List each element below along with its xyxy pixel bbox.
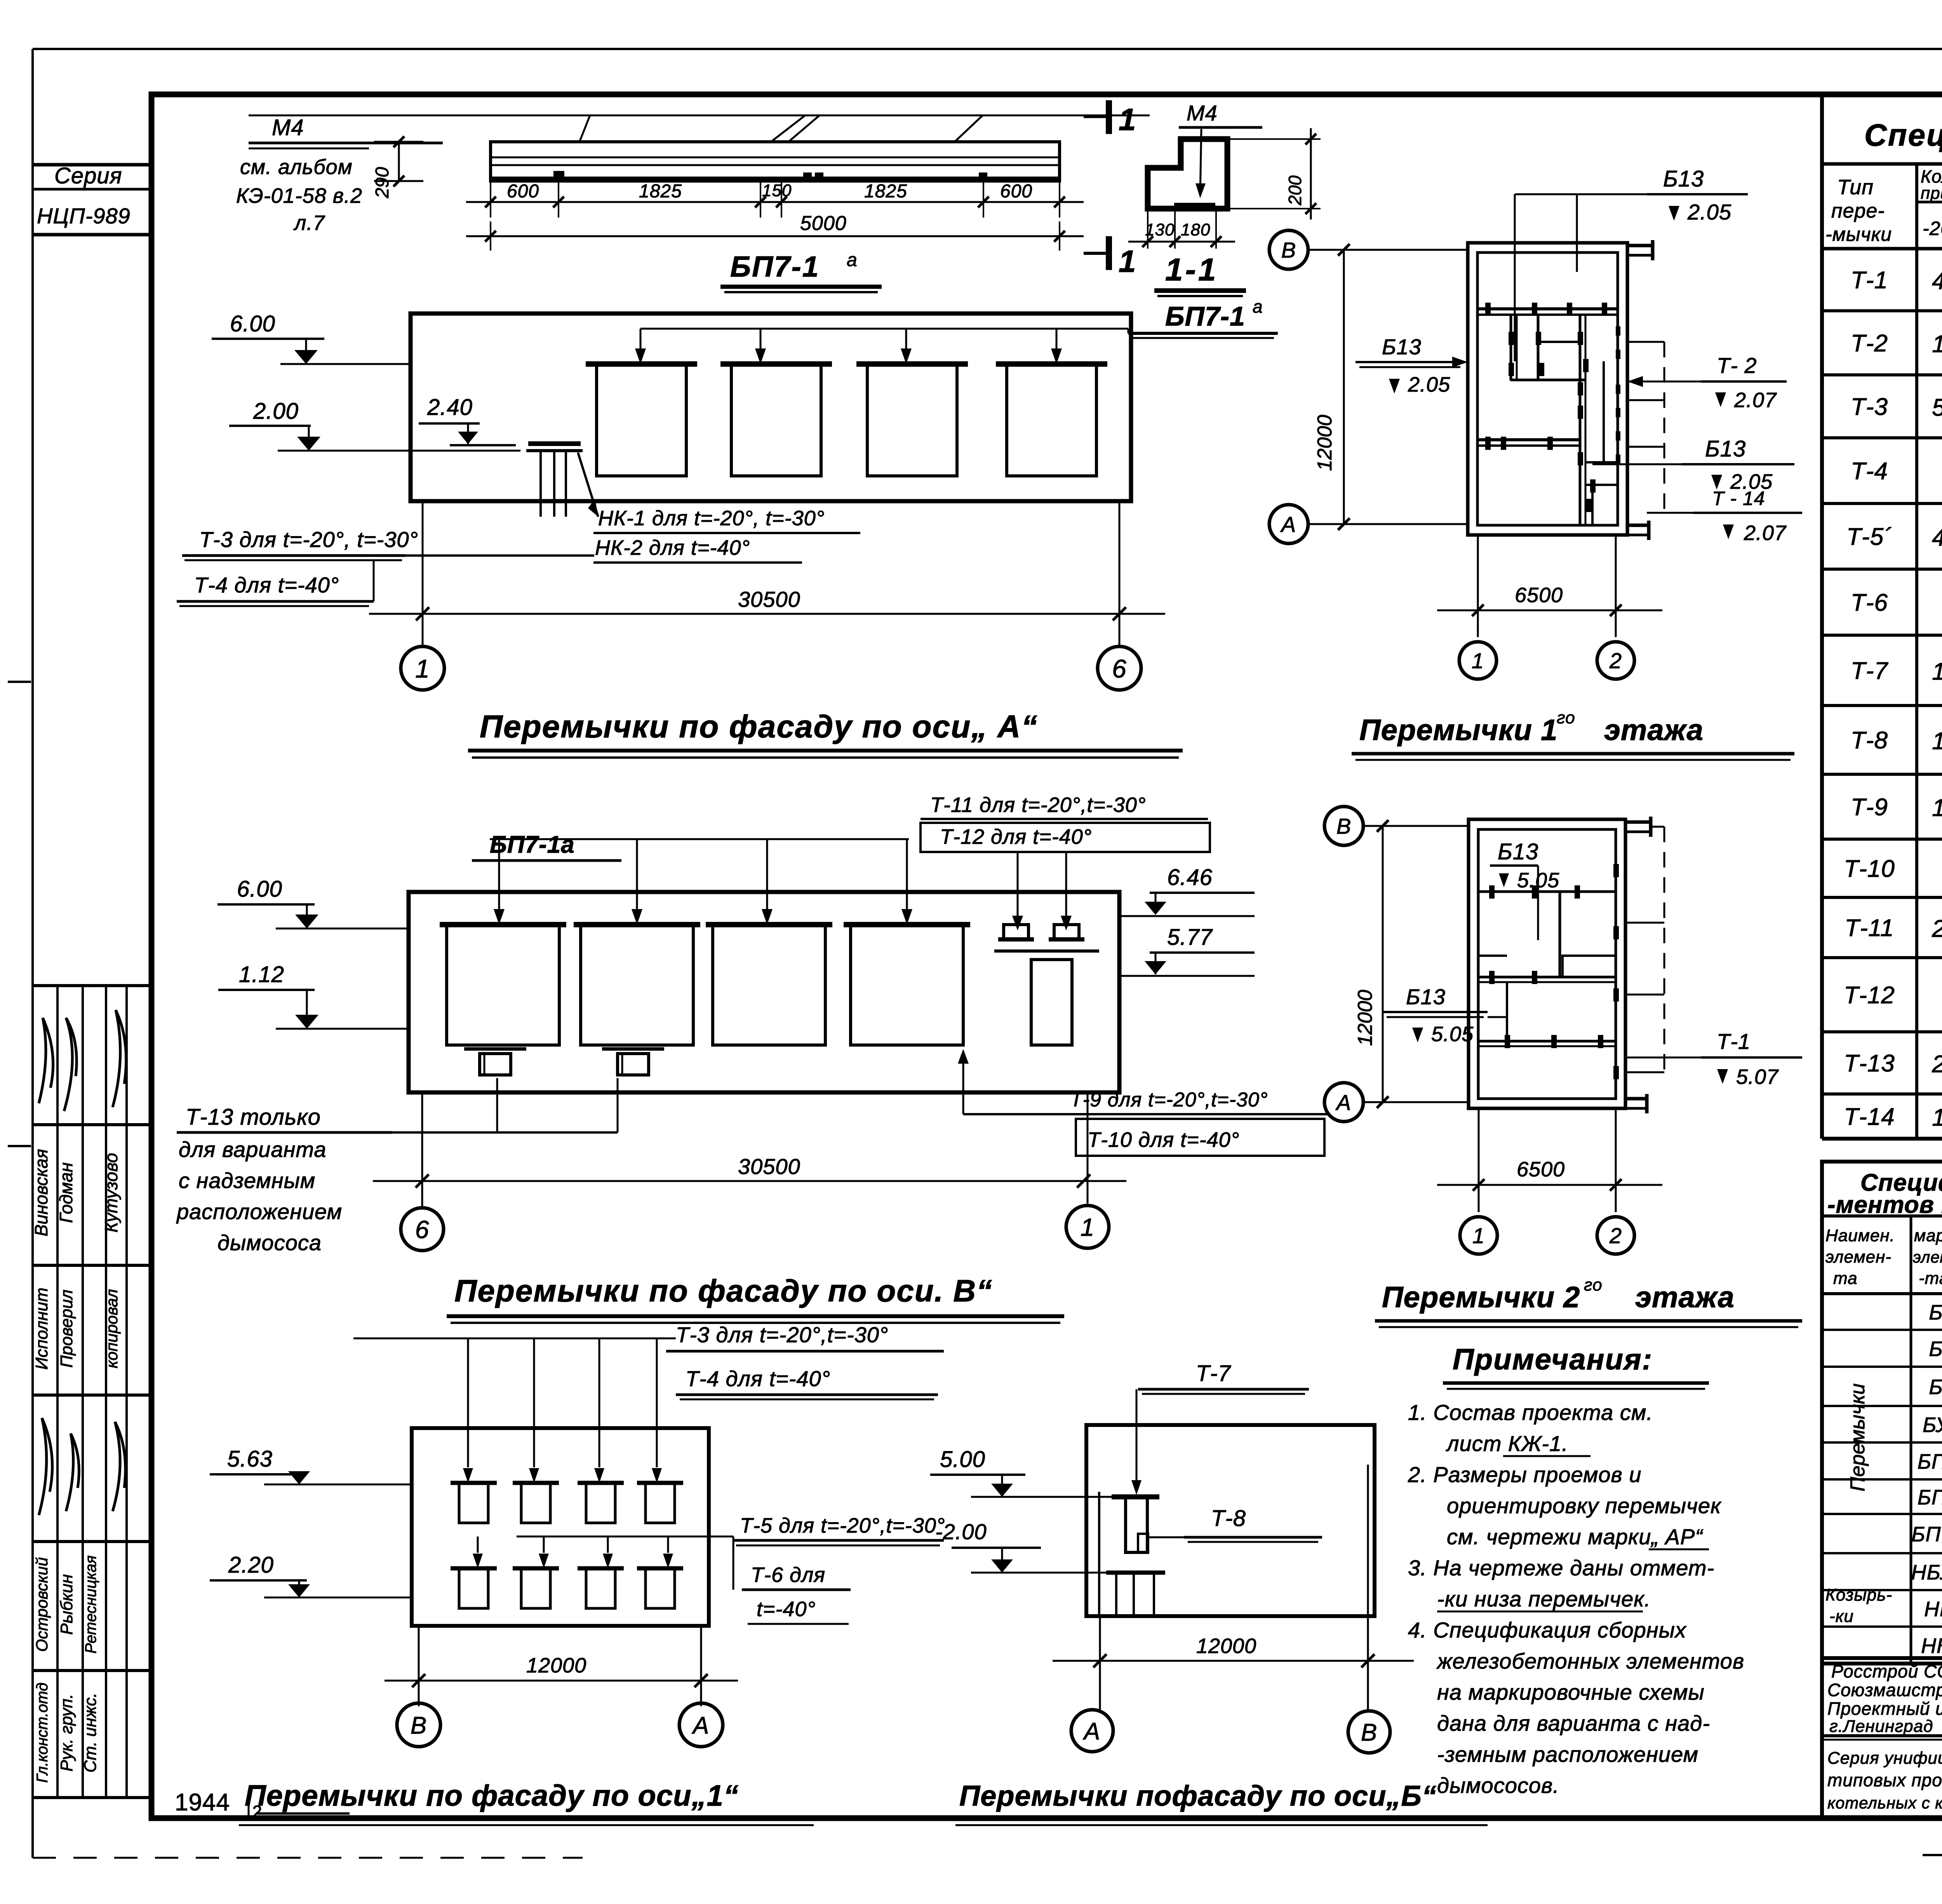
svg-text:А: А (691, 1712, 709, 1739)
svg-text:Кутузово: Кутузово (101, 1153, 121, 1233)
svg-text:5.77: 5.77 (1167, 925, 1213, 950)
right leader lines plan2 (1651, 826, 1664, 828)
staff signatures top (39, 1018, 53, 1103)
svg-text:1. Состав проекта см.: 1. Состав проекта см. (1408, 1400, 1653, 1425)
svg-text:1: 1 (1472, 648, 1484, 673)
svg-text:БП7-1а: БП7-1а (1911, 1523, 1942, 1546)
svg-text:НЦП-989: НЦП-989 (37, 204, 131, 228)
svg-text:5000: 5000 (800, 212, 847, 235)
svg-text:л.7: л.7 (293, 211, 325, 235)
leader T-7 (1136, 1389, 1138, 1492)
svg-text:2. Размеры проемов и: 2. Размеры проемов и (1408, 1462, 1641, 1487)
axis circle A plan1 (1269, 505, 1308, 544)
plan1 right wall openings (1616, 326, 1620, 336)
svg-text:Козырь-: Козырь- (1825, 1585, 1892, 1604)
svg-text:Т-4 для t=-40°: Т-4 для t=-40° (686, 1366, 830, 1391)
svg-text:-ки: -ки (1829, 1607, 1854, 1626)
table1 row lines (1822, 309, 1942, 312)
svg-text:Т-7: Т-7 (1196, 1361, 1232, 1386)
svg-text:БУ19: БУ19 (1923, 1413, 1942, 1437)
svg-text:12000: 12000 (1354, 990, 1376, 1046)
svg-text:Т-4: Т-4 (1851, 458, 1888, 485)
svg-text:Т-8: Т-8 (1211, 1506, 1246, 1531)
svg-text:Перемычки: Перемычки (1846, 1383, 1869, 1491)
facade axis Б elevation (1086, 1425, 1375, 1616)
dim 12000 facade Б (1099, 1616, 1101, 1711)
svg-text:4. Спецификация сборных: 4. Спецификация сборных (1408, 1618, 1687, 1642)
plan2 bottom right flange (1625, 1097, 1647, 1101)
svg-text:Т-9: Т-9 (1851, 794, 1888, 821)
axis circles 1 2 plan2 (1460, 1217, 1497, 1254)
svg-text:2.07: 2.07 (1744, 521, 1787, 545)
leaders to lower windows (517, 1536, 733, 1538)
svg-text:Серия: Серия (54, 163, 122, 188)
svg-text:-2.00: -2.00 (935, 1519, 987, 1544)
svg-text:В: В (1336, 814, 1351, 838)
table2 header (1822, 1292, 1942, 1295)
svg-text:Т-8: Т-8 (1851, 727, 1888, 754)
axis circle A plan2 (1324, 1083, 1363, 1122)
plan2 right branch lines (1625, 922, 1664, 924)
svg-text:элемен-: элемен- (1825, 1247, 1892, 1266)
dim 130 180 (1147, 209, 1148, 249)
svg-text:1-1: 1-1 (1165, 252, 1218, 287)
staff signatures bottom (39, 1418, 52, 1515)
svg-text:КЭ-01-58 в.2: КЭ-01-58 в.2 (236, 184, 362, 207)
facade axis 1 elevation (412, 1428, 709, 1626)
plan1 right dashed leader (1664, 342, 1665, 509)
svg-text:-ки низа перемычек.: -ки низа перемычек. (1437, 1587, 1651, 1611)
svg-text:1: 1 (1932, 331, 1942, 358)
embedded plates (553, 171, 564, 177)
svg-text:130: 130 (1145, 220, 1175, 239)
svg-text:Перемычки по фасаду по оси„1: Перемычки по фасаду по оси„1“ (245, 1779, 739, 1812)
plan2 left label leader link (1488, 1016, 1507, 1018)
canopy NK (528, 441, 581, 446)
svg-text:дымососов.: дымососов. (1437, 1773, 1559, 1798)
svg-text:1944: 1944 (175, 1789, 230, 1816)
svg-text:Б13: Б13 (1498, 839, 1538, 864)
svg-text:-мычки: -мычки (1825, 223, 1892, 245)
svg-text:Гл.конст.отд: Гл.конст.отд (34, 1683, 51, 1783)
svg-text:150: 150 (762, 181, 792, 200)
svg-text:Б13: Б13 (1929, 1301, 1942, 1324)
svg-text:12000: 12000 (1196, 1634, 1256, 1658)
svg-text:НБУ-16: НБУ-16 (1911, 1561, 1942, 1584)
axis circles facade Б (1071, 1710, 1113, 1752)
axis circle B plan2 (1324, 807, 1363, 845)
svg-text:Т-14: Т-14 (1844, 1104, 1895, 1131)
svg-text:Перемычки пофасаду по оси„Б“: Перемычки пофасаду по оси„Б“ (959, 1780, 1437, 1812)
staff table (33, 984, 151, 987)
facade B windows (440, 922, 566, 927)
svg-text:Союзмашстройпроект: Союзмашстройпроект (1827, 1680, 1942, 1700)
svg-text:2.00: 2.00 (253, 399, 299, 424)
svg-text:с надземным: с надземным (179, 1168, 315, 1193)
svg-text:Т-3: Т-3 (1851, 394, 1888, 420)
svg-text:этажа: этажа (1604, 714, 1704, 747)
svg-text:5.63: 5.63 (227, 1446, 273, 1472)
beam dim line 600 1825 150 1825 600 (466, 201, 1084, 203)
svg-text:Перемычки 1: Перемычки 1 (1359, 714, 1557, 747)
svg-text:Спецификация перемычек на т: Спецификация перемычек на типы (1864, 118, 1942, 152)
beam BP7-1a body (491, 142, 1060, 181)
svg-text:а: а (1253, 296, 1263, 317)
svg-text:Т-3 для t=-20°,t=-30°: Т-3 для t=-20°,t=-30° (676, 1322, 888, 1347)
pedestal bottom (1106, 1571, 1165, 1575)
svg-text:А: А (1082, 1718, 1100, 1745)
svg-text:Перемычки 2: Перемычки 2 (1382, 1281, 1580, 1314)
facade A windows (586, 361, 697, 367)
facade Б window (1112, 1495, 1159, 1500)
leader BP7-1a over facade A (640, 328, 1128, 330)
svg-text:В: В (411, 1712, 427, 1739)
svg-text:Годман: Годман (56, 1162, 76, 1223)
svg-text:Б13: Б13 (1382, 334, 1422, 359)
svg-text:1: 1 (1119, 102, 1136, 137)
svg-text:Т-6 для: Т-6 для (751, 1563, 825, 1587)
axis circles facade 1 (397, 1703, 440, 1747)
svg-text:Т-5 для t=-20°,t=-30°: Т-5 для t=-20°,t=-30° (740, 1514, 945, 1537)
dim 6500 plan1 (1477, 535, 1479, 637)
notes underlines (1503, 1455, 1590, 1457)
svg-text:1: 1 (1932, 795, 1942, 822)
svg-text:6: 6 (415, 1216, 430, 1244)
svg-text:НК-1: НК-1 (1924, 1597, 1942, 1621)
svg-text:Б13: Б13 (1406, 984, 1446, 1009)
svg-text:-земным расположением: -земным расположением (1437, 1742, 1698, 1766)
series box (33, 163, 151, 167)
svg-text:12000: 12000 (526, 1654, 586, 1677)
plan2 top right flange (1625, 820, 1651, 824)
facade axis B elevation (409, 892, 1119, 1092)
svg-text:Б15: Б15 (1929, 1338, 1942, 1361)
svg-text:Росстрой СССР: Росстрой СССР (1831, 1661, 1942, 1681)
plan2 internal (1478, 890, 1616, 893)
svg-text:ориентировку перемычек: ориентировку перемычек (1447, 1493, 1722, 1518)
svg-text:марка: марка (1914, 1226, 1942, 1245)
leader line M4 (249, 115, 1150, 117)
svg-text:2: 2 (1932, 916, 1942, 942)
svg-text:4: 4 (1932, 524, 1942, 551)
svg-text:БП3-1: БП3-1 (1918, 1486, 1942, 1509)
svg-text:30500: 30500 (738, 587, 800, 611)
svg-text:на маркировочные схемы: на маркировочные схемы (1437, 1680, 1705, 1704)
svg-text:типовых проектов: типовых проектов (1827, 1770, 1942, 1790)
svg-text:та: та (1833, 1269, 1858, 1288)
svg-text:1: 1 (1932, 1104, 1942, 1131)
plan1 internal walls (1477, 307, 1618, 310)
svg-text:дымососа: дымососа (218, 1230, 322, 1255)
svg-text:6500: 6500 (1515, 584, 1563, 607)
svg-text:элемен.: элемен. (1913, 1248, 1942, 1266)
svg-text:1: 1 (1932, 728, 1942, 755)
svg-text:Т-1: Т-1 (1717, 1029, 1751, 1054)
facade Б axis line inside left (1098, 1492, 1100, 1616)
svg-text:А: А (1280, 512, 1296, 537)
svg-text:НК- 2: НК- 2 (1921, 1634, 1942, 1658)
svg-text:Т-12 для t=-40°: Т-12 для t=-40° (940, 825, 1092, 848)
svg-text:5: 5 (1932, 394, 1942, 421)
svg-text:2.20: 2.20 (228, 1552, 274, 1578)
svg-text:этажа: этажа (1635, 1281, 1735, 1314)
svg-text:Т-11: Т-11 (1845, 915, 1894, 942)
svg-text:Островский: Островский (33, 1557, 51, 1651)
svg-text:БП7-1: БП7-1 (1165, 301, 1245, 331)
svg-text:6.00: 6.00 (230, 311, 275, 336)
svg-text:1825: 1825 (639, 181, 682, 202)
svg-text:Перемычки по фасаду по оси.: Перемычки по фасаду по оси. В“ (454, 1273, 993, 1308)
svg-text:г.Ленинград: г.Ленинград (1829, 1717, 1933, 1736)
facade axis A elevation (411, 314, 1131, 501)
svg-text:290: 290 (372, 167, 393, 199)
svg-text:2: 2 (1609, 1223, 1622, 1248)
svg-text:Т-7: Т-7 (1851, 658, 1889, 685)
svg-text:расположением: расположением (176, 1199, 342, 1224)
svg-text:лист КЖ-1.: лист КЖ-1. (1446, 1431, 1568, 1456)
svg-text:30500: 30500 (738, 1154, 800, 1179)
svg-text:Т-4 для t=-40°: Т-4 для t=-40° (194, 573, 339, 597)
svg-text:200: 200 (1285, 175, 1305, 206)
svg-text:6: 6 (1112, 654, 1127, 683)
svg-text:М4: М4 (272, 115, 304, 140)
svg-text:Б13: Б13 (1663, 166, 1704, 192)
svg-text:6.46: 6.46 (1167, 865, 1213, 890)
dim 12000 plan1 (1343, 250, 1345, 524)
plan2 lintel ticks (1489, 885, 1495, 899)
registration ticks (8, 681, 31, 683)
svg-text:1: 1 (1081, 1213, 1095, 1241)
svg-text:Проектный институт N1: Проектный институт N1 (1827, 1698, 1942, 1719)
plan1 right branch lines (1627, 341, 1664, 343)
svg-text:Т- 2: Т- 2 (1717, 353, 1757, 378)
svg-text:Т-12: Т-12 (1844, 982, 1895, 1009)
plan floor1 outer walls (1468, 243, 1627, 535)
svg-text:Т - 14: Т - 14 (1712, 488, 1765, 509)
svg-text:Проверил: Проверил (57, 1289, 76, 1367)
axis circle B plan1 (1269, 230, 1308, 269)
svg-text:Наимен.: Наимен. (1825, 1226, 1895, 1245)
svg-text:2.05: 2.05 (1408, 373, 1450, 396)
facade 1 windows upper (451, 1481, 497, 1485)
svg-text:НК-1 для t=-20°, t=-30°: НК-1 для t=-20°, t=-30° (598, 507, 825, 530)
svg-text:М4: М4 (1187, 101, 1218, 125)
svg-text:t=-40°: t=-40° (757, 1597, 816, 1621)
svg-text:3. На чертеже даны отмет-: 3. На чертеже даны отмет- (1408, 1556, 1714, 1580)
svg-text:-ментов на маркировочные схе: -ментов на маркировочные схемы для всех … (1827, 1192, 1942, 1218)
svg-text:А: А (1335, 1090, 1351, 1115)
svg-text:го: го (1557, 708, 1575, 727)
svg-text:Перемычки по фасаду по оси„: Перемычки по фасаду по оси„ А“ (480, 709, 1038, 744)
svg-text:при температ: при температ (1921, 184, 1942, 203)
svg-text:1: 1 (1472, 1223, 1485, 1248)
svg-text:2.05: 2.05 (1687, 200, 1731, 224)
dim 12000 plan2 (1382, 826, 1384, 1102)
svg-text:6.00: 6.00 (237, 876, 282, 902)
svg-text:1825: 1825 (864, 181, 907, 202)
dim 12000 facade 1 (418, 1626, 420, 1706)
svg-text:Т-10: Т-10 (1844, 855, 1895, 882)
svg-text:а: а (847, 250, 858, 270)
svg-text:котельных с котлами ДКВР: котельных с котлами ДКВР (1827, 1794, 1942, 1812)
svg-text:Т-9 для t=-20°,t=-30°: Т-9 для t=-20°,t=-30° (1070, 1089, 1268, 1111)
svg-text:Виновская: Виновская (31, 1149, 51, 1236)
svg-text:пере-: пере- (1831, 200, 1885, 222)
svg-text:копировал: копировал (103, 1289, 121, 1368)
svg-text:12000: 12000 (1314, 415, 1336, 471)
svg-text:Т-10 для t=-40°: Т-10 для t=-40° (1088, 1128, 1239, 1151)
axis circles facade B (401, 1208, 444, 1251)
svg-text:Б13: Б13 (1705, 436, 1746, 462)
dim 30500 facade B (421, 1092, 423, 1207)
svg-text:5.07: 5.07 (1736, 1065, 1779, 1089)
svg-text:-та: -та (1919, 1269, 1942, 1288)
leaders from T-3 to upper windows (353, 1338, 676, 1340)
svg-text:Т-13 только: Т-13 только (186, 1104, 321, 1130)
facade B small right windows (998, 937, 1034, 942)
svg-text:2: 2 (1609, 648, 1622, 673)
svg-text:5.00: 5.00 (940, 1447, 985, 1472)
svg-text:Примечания:: Примечания: (1453, 1343, 1653, 1376)
svg-text:Т-6: Т-6 (1851, 589, 1888, 616)
plan1 top right flange (1627, 244, 1653, 247)
svg-text:600: 600 (1000, 181, 1032, 202)
svg-text:-20°: -20° (1923, 218, 1942, 239)
svg-text:В: В (1281, 238, 1296, 262)
svg-text:го: го (1584, 1275, 1603, 1294)
svg-text:Тип: Тип (1837, 176, 1874, 199)
table1 header grid (1822, 162, 1942, 166)
title block (1822, 1656, 1942, 1660)
svg-text:Т-2: Т-2 (1851, 330, 1888, 357)
svg-text:дана для варианта с над-: дана для варианта с над- (1437, 1711, 1710, 1735)
section mark 1 top (1106, 100, 1112, 134)
svg-text:Ретесницкая: Ретесницкая (82, 1556, 99, 1654)
svg-text:Рыбкин: Рыбкин (57, 1574, 76, 1635)
svg-text:4: 4 (1932, 268, 1942, 294)
dim 290 (398, 142, 400, 181)
svg-text:600: 600 (507, 181, 539, 202)
plan1 bottom right flange (1627, 524, 1649, 527)
svg-text:180: 180 (1181, 220, 1210, 239)
svg-text:Б19: Б19 (1929, 1376, 1942, 1399)
svg-text:Рук. груп.: Рук. груп. (57, 1694, 76, 1772)
beam dim 5000 (466, 235, 1084, 237)
svg-text:2: 2 (252, 1802, 262, 1821)
svg-text:Ст. инжс.: Ст. инжс. (81, 1693, 100, 1773)
svg-text:1.12: 1.12 (239, 962, 284, 987)
svg-text:Т-11 для t=-20°,t=-30°: Т-11 для t=-20°,t=-30° (930, 793, 1146, 817)
pedestals under windows 1-2 (464, 1047, 526, 1051)
svg-text:Т-1: Т-1 (1851, 267, 1888, 294)
svg-text:1: 1 (415, 654, 430, 683)
dim 6500 plan2 (1478, 1108, 1480, 1212)
svg-text:1: 1 (1119, 244, 1136, 279)
svg-text:2.40: 2.40 (427, 395, 473, 420)
svg-text:6500: 6500 (1517, 1158, 1565, 1181)
svg-text:для варианта: для варианта (179, 1137, 327, 1162)
dim 30500 facade A (422, 501, 424, 637)
spec table 1 frame (1820, 93, 1824, 1139)
section profile (1148, 139, 1227, 209)
svg-text:2: 2 (1932, 1051, 1942, 1078)
svg-text:Т-3 для t=-20°, t=-30°: Т-3 для t=-20°, t=-30° (199, 527, 418, 552)
svg-text:железобетонных элементов: железобетонных элементов (1436, 1649, 1744, 1673)
svg-text:см. чертежи марки„ АР“: см. чертежи марки„ АР“ (1447, 1524, 1704, 1549)
svg-text:В: В (1361, 1719, 1377, 1746)
svg-text:см. альбом: см. альбом (240, 155, 353, 179)
sheet outer border (33, 48, 1942, 50)
svg-text:Т-13: Т-13 (1844, 1050, 1895, 1077)
axis circles 1 2 plan1 (1459, 642, 1497, 679)
plan2 leader from label (1537, 866, 1539, 940)
dim 200 (1227, 138, 1321, 140)
plan1 lintel ticks (1485, 303, 1491, 316)
facade 1 windows lower (451, 1566, 497, 1571)
svg-text:2.07: 2.07 (1734, 388, 1777, 412)
section mark 1 bottom (1106, 236, 1112, 270)
svg-text:Серия унифицированных: Серия унифицированных (1827, 1749, 1942, 1768)
plan floor2 outer walls (1469, 819, 1625, 1108)
axis circles facade A (422, 637, 424, 646)
svg-text:Т-5´: Т-5´ (1846, 524, 1892, 550)
svg-text:БП7-1: БП7-1 (730, 250, 820, 283)
svg-text:НК-2 для t=-40°: НК-2 для t=-40° (595, 536, 750, 559)
svg-text:БП2-1: БП2-1 (1918, 1450, 1942, 1474)
svg-text:5.05: 5.05 (1431, 1023, 1474, 1046)
svg-text:1: 1 (1932, 658, 1942, 685)
spec table 2 (1822, 1162, 1942, 1664)
svg-text:БП7-1а: БП7-1а (490, 831, 575, 858)
svg-text:Исполнит: Исполнит (32, 1287, 51, 1369)
